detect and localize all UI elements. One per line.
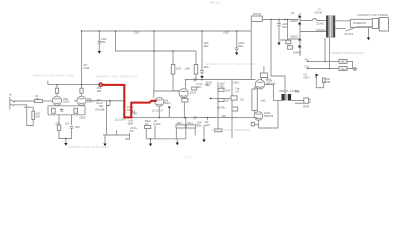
ground G6 chassis: [354, 68, 357, 71]
wire rectifier tap: [288, 20, 301, 40]
wire V3 plate feed: [153, 31, 155, 91]
svg-text:(2M2): (2M2): [80, 118, 86, 120]
svg-text:0.9uF: 0.9uF: [101, 39, 107, 41]
tube V3 12AX7: [155, 97, 164, 106]
fuse F1: [300, 19, 326, 21]
wire B+ to OT: [271, 20, 285, 95]
junction dot: [115, 30, 117, 32]
wire cathode bus: [59, 131, 72, 139]
resistor R28: [288, 46, 293, 49]
heater plug HTR2: [339, 67, 347, 71]
ground G1: [98, 51, 101, 54]
capacitor C2: [60, 109, 63, 111]
wire primary lower: [300, 31, 326, 33]
svg-text:ON-OFF: ON-OFF: [345, 34, 354, 36]
svg-text:10uF: 10uF: [220, 84, 226, 86]
svg-text:10W: 10W: [97, 91, 103, 93]
wire mains hot: [335, 20, 372, 22]
svg-text:6M4: 6M4: [341, 69, 346, 71]
svg-text:125VAC: 125VAC: [316, 23, 325, 26]
svg-text:POWER ON: POWER ON: [353, 23, 366, 25]
svg-text:(4Ω): (4Ω): [295, 92, 300, 94]
svg-text:400v: 400v: [197, 87, 203, 89]
diode D2: [299, 22, 302, 25]
svg-text:L8K3: L8K3: [234, 83, 240, 85]
svg-text:5K6 5W: 5K6 5W: [253, 14, 262, 16]
svg-text:5X0.5A: 5X0.5A: [315, 12, 323, 15]
resistor R30: [215, 129, 222, 132]
svg-text:320v: 320v: [266, 79, 272, 81]
resistor R24 shared cathode: [252, 89, 257, 111]
resistor R16 cathode: [182, 99, 188, 103]
jack J3 speaker: [304, 98, 309, 103]
wire jack sleeve: [13, 105, 33, 126]
svg-text:450v: 450v: [238, 46, 244, 48]
wire PI rail: [185, 79, 252, 81]
svg-text:BAL/it: BAL/it: [164, 102, 170, 105]
svg-text:1 C5: 1 C5: [54, 124, 60, 126]
svg-text:22nF: 22nF: [197, 123, 203, 125]
junction dot: [236, 30, 238, 32]
svg-text:50K: 50K: [164, 100, 169, 102]
svg-text:1W08: 1W08: [83, 68, 90, 70]
ground G10: [149, 144, 152, 147]
svg-text:-3uF+: -3uF+: [128, 121, 135, 123]
svg-text:1M0: 1M0: [133, 114, 138, 116]
transformer T1 windings: [326, 16, 329, 38]
junction dot: [278, 19, 280, 21]
svg-text:Rev-8: Rev-8: [97, 103, 104, 105]
junction dot: [201, 79, 203, 81]
svg-text:MARKED IT IS BY MARC DILEO: MARKED IT IS BY MARC DILEO: [68, 145, 110, 149]
wire screen feed: [116, 31, 197, 51]
svg-text:12AX7: 12AX7: [87, 101, 95, 104]
junction dot: [153, 50, 155, 52]
junction dot: [65, 138, 67, 140]
resistor R13 100K: [195, 51, 197, 65]
wire supply line: [262, 19, 298, 21]
svg-text:NE1: NE1: [99, 106, 104, 108]
junction dot: [287, 19, 289, 21]
svg-text:12AX7: 12AX7: [190, 92, 198, 95]
svg-text:-47uF+: -47uF+: [130, 128, 138, 130]
svg-text:IN: IN: [9, 93, 12, 97]
junction dot: [56, 84, 58, 86]
diode D1: [299, 13, 301, 56]
capacitor C11 filter: [201, 31, 203, 71]
junction dot: [153, 30, 155, 32]
svg-text:1K5: 1K5: [65, 124, 70, 126]
svg-text:100K: 100K: [63, 99, 69, 101]
wire screen column: [231, 80, 233, 138]
ground G3: [235, 53, 238, 56]
junction dot: [81, 30, 83, 32]
svg-text:1M0: 1M0: [35, 114, 40, 116]
wire V3 plate: [154, 91, 179, 98]
junction dot: [329, 68, 331, 70]
svg-text:4uF: 4uF: [225, 101, 230, 103]
wire OT out to jack: [291, 100, 304, 102]
svg-text:VOLUME: VOLUME: [95, 110, 105, 112]
wire PI bias drop: [172, 51, 174, 65]
diode D3: [299, 38, 302, 41]
resistor R15 NFB: [192, 87, 197, 90]
junction dot: [185, 117, 187, 119]
svg-text:4uF/25v: 4uF/25v: [217, 108, 226, 110]
svg-text:0.1uF: 0.1uF: [197, 84, 203, 86]
wire preamp rail: [48, 84, 124, 86]
svg-text:100K: 100K: [185, 69, 191, 71]
svg-text:+2uF: +2uF: [282, 24, 288, 26]
svg-text:.1 of 1.: .1 of 1.: [183, 155, 193, 159]
capacitor C13: [278, 20, 280, 24]
junction dot: [316, 76, 318, 78]
resistor R26: [251, 122, 254, 126]
resistor R3 100K plate: [56, 85, 58, 89]
ground G9: [176, 143, 179, 146]
ground G2: [200, 76, 203, 79]
svg-text:1N4007: 1N4007: [290, 21, 299, 23]
wire V3 cathode: [158, 106, 160, 117]
svg-text:MARKED IT IS BY MARC DILEO: MARKED IT IS BY MARC DILEO: [206, 62, 257, 66]
capacitor C12 filter: [236, 31, 238, 48]
svg-text:SPKR: SPKR: [303, 107, 310, 109]
switch SW1: [350, 19, 373, 27]
svg-text:1/2 12AX7: 1/2 12AX7: [152, 110, 164, 113]
svg-text:220R: 220R: [325, 82, 331, 84]
wire B+ rail: [82, 30, 252, 32]
svg-text:400v: 400v: [197, 126, 203, 128]
wire PI input line: [131, 117, 237, 119]
capacitor C10: [98, 31, 100, 42]
wire bias column: [217, 82, 219, 129]
svg-text:220uF: 220uF: [63, 102, 70, 104]
red node ring: [99, 83, 102, 86]
svg-text:1.5K: 1.5K: [97, 88, 102, 90]
svg-text:NB1: NB1: [97, 100, 102, 102]
wire V5 grid: [237, 79, 256, 81]
svg-text:2M2: 2M2: [35, 117, 40, 119]
ground G8: [103, 144, 106, 147]
resistor R7 1K5 cathode2: [58, 115, 60, 125]
svg-text:1/2 12AX7: 1/2 12AX7: [115, 119, 127, 122]
svg-text:MARKED IT IS BY MARC DILEO: MARKED IT IS BY MARC DILEO: [212, 128, 251, 132]
junction dot: [324, 61, 326, 63]
wire V6 cathode loop: [259, 101, 279, 129]
svg-text:1N4007: 1N4007: [290, 37, 299, 39]
junction dot: [201, 30, 203, 32]
resistor R21 grid: [218, 99, 224, 102]
tube V1 12AX7a: [52, 96, 61, 105]
svg-text:MARKED IT IS BY MARC DILEO: MARKED IT IS BY MARC DILEO: [96, 75, 138, 79]
resistor R12 220K: [171, 65, 175, 75]
resistor R25 screen V5: [260, 73, 267, 78]
svg-text:450v: 450v: [282, 27, 288, 29]
svg-text:LED 2: LED 2: [304, 78, 311, 80]
svg-text:2uF: 2uF: [205, 122, 210, 124]
svg-text:1uF5: 1uF5: [205, 125, 211, 127]
svg-text:(115VAC): (115VAC): [316, 29, 326, 32]
svg-text:50M: 50M: [87, 99, 92, 101]
wire jack tip: [14, 100, 35, 102]
svg-text:MARKED IT IS BY MARC DILEO: MARKED IT IS BY MARC DILEO: [331, 51, 365, 55]
junction dot: [195, 79, 197, 81]
svg-text:220K: 220K: [176, 69, 182, 71]
resistor R14 dropper: [251, 16, 262, 22]
svg-text:EPI_VJ: EPI_VJ: [210, 1, 221, 5]
capacitor C3 bypass: [71, 115, 73, 125]
svg-text:10uF: 10uF: [204, 67, 210, 69]
junction dot: [284, 19, 286, 21]
svg-text:180R: 180R: [128, 124, 134, 126]
svg-text:1N4007: 1N4007: [293, 53, 302, 55]
resistor R29: [232, 107, 238, 111]
svg-text:(still): (still): [261, 100, 266, 103]
svg-text:100uF: 100uF: [238, 43, 245, 45]
resistor R23: [211, 97, 231, 99]
svg-text:4K7: 4K7: [83, 65, 88, 67]
ground G5 mains earth: [368, 27, 370, 38]
tube V6 EL84: [254, 112, 263, 121]
svg-text:L5K3: L5K3: [224, 33, 230, 35]
svg-text:1uF: 1uF: [240, 100, 245, 102]
junction dot: [159, 117, 161, 119]
svg-text:MARKED IT IS BY MARC DILEO: MARKED IT IS BY MARC DILEO: [33, 74, 75, 78]
junction dot: [184, 117, 186, 119]
diode D4: [299, 45, 302, 48]
resistor R5 1K5: [52, 108, 56, 113]
svg-text:CONNECT FOR POWER: CONNECT FOR POWER: [357, 15, 388, 17]
resistor R2 1M: [32, 111, 35, 119]
capacitor C4 coupling: [132, 110, 134, 113]
wire V4 plate: [185, 80, 187, 89]
wire V2 plate out: [86, 100, 124, 102]
tube V5 EL84: [255, 80, 264, 89]
junction dot: [270, 19, 272, 21]
capacitor C6 coupling top: [185, 79, 194, 81]
svg-text:1uF: 1uF: [235, 92, 240, 94]
svg-text:Cap: Cap: [235, 89, 240, 91]
svg-text:860Ω: 860Ω: [145, 121, 151, 123]
wire OT in: [274, 100, 282, 102]
resistor R20 grid: [218, 88, 224, 91]
heater plug HTR1: [339, 59, 347, 63]
junction dot: [81, 84, 83, 86]
svg-text:1K5: 1K5: [222, 116, 227, 118]
svg-text:6M3: 6M3: [341, 62, 346, 64]
svg-text:450v: 450v: [204, 46, 210, 48]
wire B+ drop to preamp rail: [81, 31, 83, 85]
resistor R22: [322, 78, 325, 83]
svg-text:GND: GND: [325, 79, 330, 81]
junction dot: [99, 30, 101, 32]
resistor R27: [286, 40, 291, 43]
junction dot: [150, 138, 152, 140]
junction dot: [172, 50, 174, 52]
cathode network box K1: [48, 105, 85, 107]
wire left gnd bus: [125, 133, 130, 139]
svg-text:10uF: 10uF: [204, 43, 210, 45]
resistor R6 2M2: [74, 108, 78, 113]
red path highlight: [102, 85, 157, 118]
svg-text:6BQ5 B: 6BQ5 B: [264, 114, 273, 118]
tube V4 12AX7: [179, 89, 188, 98]
wire mains neutral: [335, 28, 346, 30]
ground G4: [277, 43, 280, 46]
svg-text:450v: 450v: [101, 42, 107, 44]
tube V2 12AX7b: [77, 96, 86, 105]
ground G7: [64, 143, 67, 146]
wire LED loop: [316, 77, 323, 88]
wire V5 plate to OT: [265, 85, 274, 101]
junction dot: [109, 100, 111, 102]
svg-text:L5K3: L5K3: [134, 33, 140, 35]
resistor R4 100K plate: [81, 85, 83, 89]
capacitor C7 coupling bottom: [193, 116, 195, 119]
svg-text:+25V: +25V: [75, 127, 81, 129]
wire vol ground bus: [103, 134, 130, 136]
svg-text:(2uF): (2uF): [225, 91, 231, 93]
wire B+ down: [250, 22, 252, 80]
